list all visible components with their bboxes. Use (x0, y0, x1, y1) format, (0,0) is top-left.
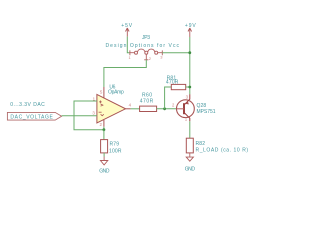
wire +5V to JP3 pin 1 (127, 37, 130, 53)
ground (left) (99, 161, 110, 175)
wire JP3 pin 2 to op-amp V+ pin (104, 60, 146, 87)
svg-text:GND: GND (99, 168, 110, 174)
resistor R79 (101, 140, 122, 155)
power symbol +9V (185, 23, 196, 37)
JP3 pin 3 stub (158, 50, 162, 55)
svg-text:DAC_VOLTAGE: DAC_VOLTAGE (10, 115, 53, 121)
wire U6 output to R60 (131, 108, 140, 110)
svg-text:GND: GND (185, 166, 196, 172)
wire R60 to base node B (157, 108, 177, 110)
JP3 pad circle 2 (145, 51, 148, 54)
svg-text:100R: 100R (109, 148, 122, 154)
label outline flag (7, 112, 61, 120)
svg-text:R82: R82 (196, 141, 206, 147)
ground pin stub (right) (189, 153, 191, 157)
wire +9V rail down to Q28 emitter (189, 37, 191, 94)
Q28 base bar (183, 103, 185, 114)
junction node B at Q28 base (163, 107, 166, 110)
net label DAC_VOLTAGE (7, 112, 61, 120)
JP3 bridge arc 2-3 (148, 49, 155, 52)
R60 body (140, 106, 157, 111)
wire feedback loop U6 pin 1 to node A (74, 101, 104, 130)
svg-text:R79: R79 (110, 142, 120, 148)
svg-text:470R: 470R (140, 98, 154, 104)
resistor R81 (166, 75, 186, 89)
R81 body (171, 84, 185, 89)
Q28 body circle (177, 100, 195, 118)
JP3 pad circle 3 (155, 51, 158, 54)
+5V arrow graphic (126, 28, 130, 37)
svg-text:470R: 470R (166, 80, 179, 86)
V- chevron marker (101, 114, 104, 115)
ground triangle (left) (100, 161, 107, 165)
svg-text:Q28: Q28 (197, 103, 207, 109)
U6 pin 2 V- (103, 120, 105, 127)
op-amp U6 (92, 85, 131, 127)
wire DAC_VOLTAGE to U6 pin 3 (62, 115, 97, 117)
+9V arrow graphic (188, 28, 192, 37)
resistor R82 (186, 138, 248, 154)
ground pin stub (left) (103, 157, 105, 161)
Q28 emitter arrow (PNP) (185, 101, 189, 104)
ground triangle (right) (186, 157, 193, 161)
power symbol +5V (121, 23, 132, 36)
svg-text:0...3.3V DAC: 0...3.3V DAC (10, 102, 45, 108)
R79 body (101, 140, 108, 153)
svg-text:JP3: JP3 (142, 35, 150, 41)
wire R81 to +9V rail (186, 86, 190, 88)
wire Q28 collector to R82 (189, 121, 191, 138)
junction +9V rail / R81 (188, 86, 191, 89)
plus marker at non-inverting input (99, 101, 102, 104)
Q28 collector pin (184, 113, 189, 121)
ground (right) (185, 157, 196, 172)
resistor R60 (140, 93, 157, 112)
V+ chevron marker (101, 104, 103, 106)
transistor Q28 (172, 94, 216, 121)
svg-text:Design Options for Vcc: Design Options for Vcc (106, 43, 180, 49)
svg-text:R_LOAD (ca. 10 R): R_LOAD (ca. 10 R) (196, 148, 249, 154)
JP3 pin 1 stub (130, 50, 134, 55)
wire U6 pin 2 to node A (103, 127, 105, 130)
junction +9V rail / JP3 pin 3 (188, 51, 191, 54)
R82 body (186, 138, 193, 153)
jumper JP3 (106, 35, 180, 61)
Q28 emitter pin (184, 94, 189, 104)
junction node A below op-amp (103, 128, 106, 131)
wire R79 to ground (103, 153, 105, 157)
wire JP3 pin 3 to +9V rail (162, 52, 190, 54)
U6 triangle body (97, 94, 126, 123)
svg-text:MPS751: MPS751 (197, 109, 216, 115)
Q28 base pin (177, 108, 185, 110)
svg-text:+9V: +9V (185, 23, 196, 29)
U6 pin 5 V+ (103, 87, 105, 98)
JP3 pad circle 1 (135, 51, 138, 54)
svg-text:OpAmp: OpAmp (108, 90, 124, 96)
wire node A to R79 (103, 130, 105, 140)
JP3 pin 2 stub (144, 54, 148, 59)
wire node B up to R81 (165, 87, 172, 109)
U6 pin 4 output (126, 108, 131, 110)
minus marker at inverting input (99, 111, 102, 113)
JP3 bridge arc 1-2 (138, 49, 145, 52)
